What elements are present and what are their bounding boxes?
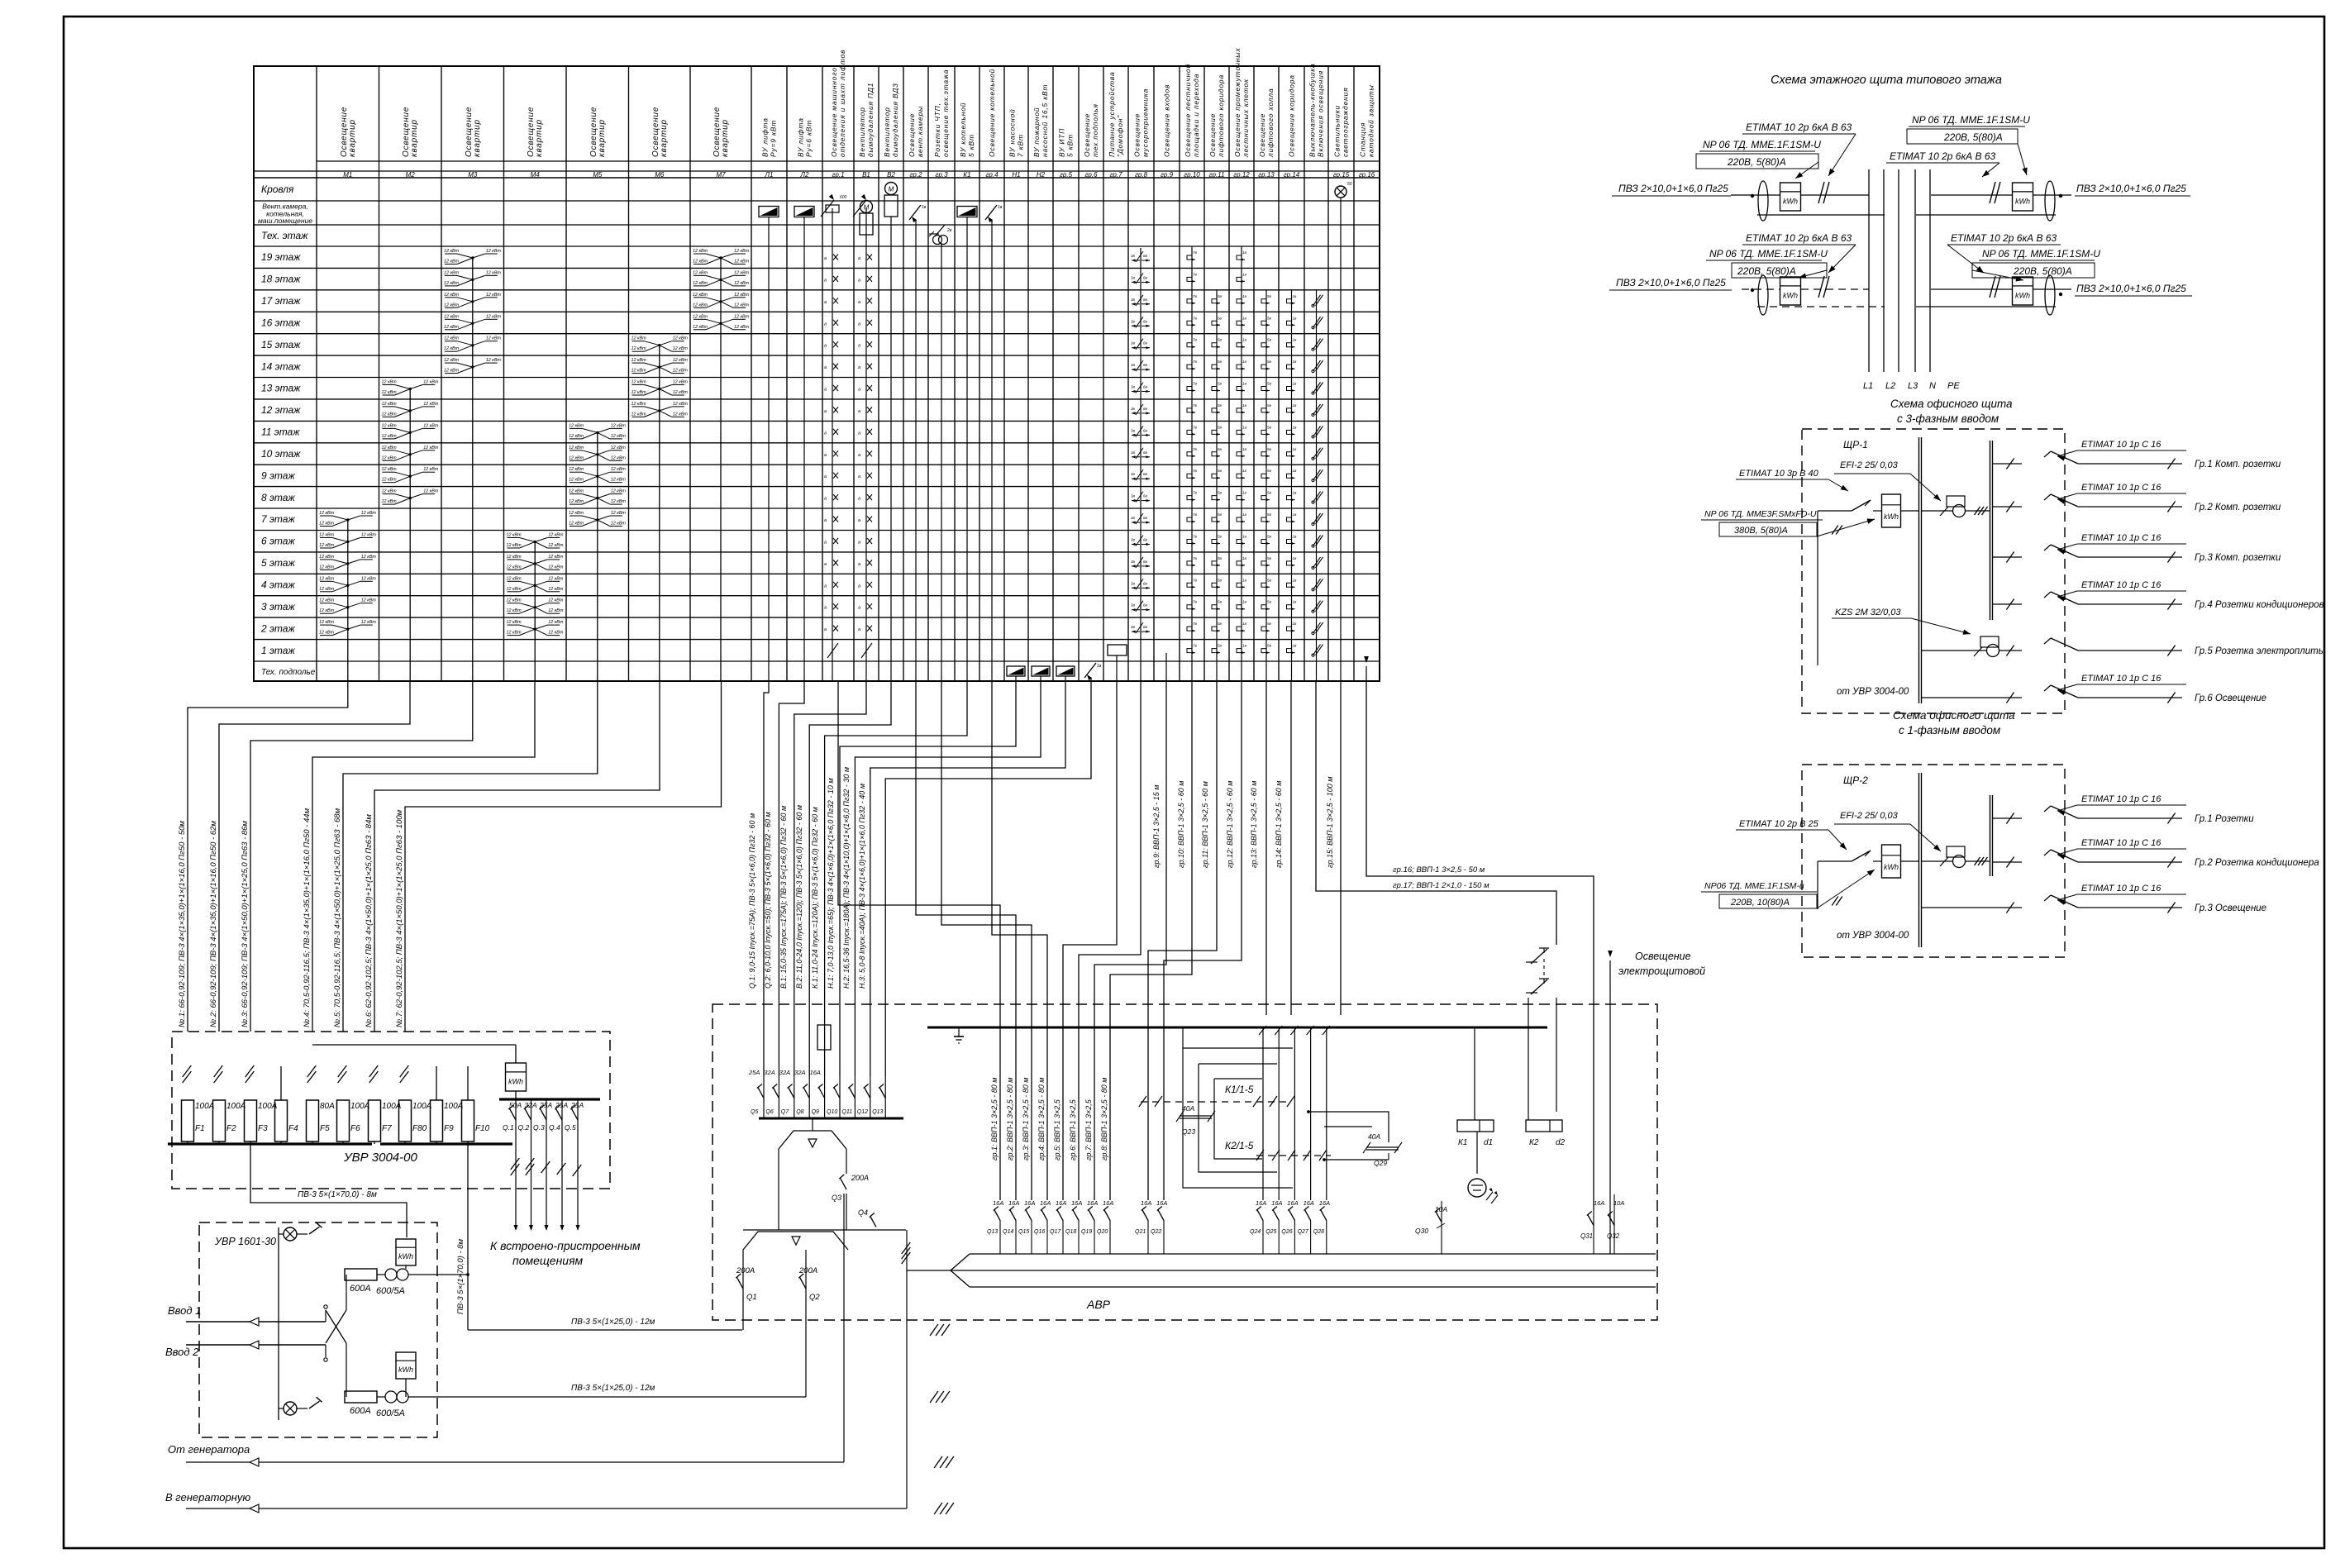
svg-text:1в: 1в (1242, 447, 1247, 451)
svg-text:2 этаж: 2 этаж (260, 622, 295, 634)
svg-text:дымоудаления ВД3: дымоудаления ВД3 (891, 83, 899, 157)
svg-text:12 кВт: 12 кВт (632, 346, 647, 351)
svg-text:12 кВт: 12 кВт (673, 412, 689, 417)
svg-text:50: 50 (1347, 182, 1352, 187)
svg-text:12 кВт: 12 кВт (734, 270, 750, 275)
svg-text:1в: 1в (1293, 338, 1298, 342)
svg-text:маш.помещение: маш.помещение (258, 217, 312, 225)
svg-text:3в: 3в (1131, 275, 1136, 279)
svg-text:гр.17; ВВП-1 2×1,0 - 150 м: гр.17; ВВП-1 2×1,0 - 150 м (1393, 881, 1489, 890)
svg-text:гр.6: гр.6 (1084, 171, 1098, 179)
svg-text:12 кВт: 12 кВт (423, 380, 439, 385)
svg-text:ПВ-3 5×(1×25,0) - 12м: ПВ-3 5×(1×25,0) - 12м (571, 1384, 655, 1393)
svg-text:7в: 7в (1193, 491, 1198, 495)
svg-text:гр.1: ВВП-1 3×2,5 - 80 м: гр.1: ВВП-1 3×2,5 - 80 м (990, 1078, 999, 1161)
svg-text:12 кВт: 12 кВт (444, 249, 460, 254)
svg-text:Q9: Q9 (812, 1109, 819, 1115)
svg-text:5в: 5в (1267, 644, 1272, 648)
svg-text:16А: 16А (1087, 1199, 1098, 1207)
svg-text:15 этаж: 15 этаж (261, 339, 301, 350)
svg-text:3в: 3в (1131, 516, 1136, 520)
svg-text:12 кВт: 12 кВт (693, 249, 708, 254)
svg-text:N: N (1929, 381, 1936, 391)
svg-text:5в: 5в (1218, 622, 1223, 626)
svg-text:12 кВт: 12 кВт (444, 293, 460, 298)
svg-text:мусороприемника: мусороприемника (1142, 88, 1150, 157)
svg-text:В1: В1 (862, 171, 870, 179)
svg-text:5в: 5в (1267, 316, 1272, 320)
svg-text:F7: F7 (382, 1124, 392, 1133)
svg-text:1в: 1в (1242, 644, 1247, 648)
svg-text:12 кВт: 12 кВт (548, 598, 564, 603)
svg-text:220В, 5(80)А: 220В, 5(80)А (1727, 156, 1786, 168)
svg-text:Н1: Н1 (1012, 171, 1020, 179)
svg-text:катодной защиты: катодной защиты (1367, 84, 1375, 157)
svg-text:12 кВт: 12 кВт (673, 346, 689, 351)
svg-text:5в: 5в (1218, 491, 1223, 495)
svg-text:Гр.3 Освещение: Гр.3 Освещение (2195, 903, 2266, 913)
svg-text:Освещение лестничной: Освещение лестничной (1184, 64, 1192, 157)
svg-text:а: а (858, 453, 860, 458)
svg-text:16А: 16А (993, 1199, 1003, 1207)
svg-text:ПВЗ 2×10,0+1×6,0 Пг25: ПВЗ 2×10,0+1×6,0 Пг25 (1618, 183, 1728, 194)
svg-text:12 кВт: 12 кВт (486, 270, 502, 275)
svg-text:12 кВт: 12 кВт (673, 336, 689, 341)
svg-text:d2: d2 (1556, 1138, 1566, 1147)
svg-text:12 кВт: 12 кВт (361, 511, 377, 516)
svg-text:Q.1: Q.1 (503, 1123, 514, 1132)
svg-text:Розетки ЧТП,: Розетки ЧТП, (933, 102, 941, 157)
svg-text:3 этаж: 3 этаж (261, 601, 295, 612)
svg-text:1в: 1в (1293, 316, 1298, 320)
svg-text:12 кВт: 12 кВт (673, 402, 689, 407)
svg-text:12 кВт: 12 кВт (319, 576, 335, 581)
svg-text:ETIMAT 10 2р 6кА В 63: ETIMAT 10 2р 6кА В 63 (1746, 232, 1852, 244)
svg-text:12 кВт: 12 кВт (611, 434, 627, 439)
svg-text:NP06 ТД. MME.1F.1SM-u: NP06 ТД. MME.1F.1SM-u (1704, 881, 1804, 891)
svg-text:40А: 40А (1368, 1132, 1380, 1141)
svg-text:ВУ пожарной: ВУ пожарной (1032, 107, 1041, 157)
svg-text:квартир: квартир (598, 119, 607, 157)
svg-text:квартир: квартир (660, 119, 669, 157)
svg-text:12 кВт: 12 кВт (507, 620, 522, 625)
svg-text:NP 06 ТД. MME.1F.1SM-U: NP 06 ТД. MME.1F.1SM-U (1982, 248, 2100, 260)
svg-text:5в: 5в (1218, 556, 1223, 560)
svg-text:12 кВт: 12 кВт (632, 380, 647, 385)
svg-text:а: а (858, 278, 860, 283)
svg-text:12 кВт: 12 кВт (319, 543, 335, 548)
svg-text:Освещение промежуточных: Освещение промежуточных (1233, 48, 1242, 157)
svg-text:kWh: kWh (1783, 198, 1798, 206)
svg-text:ETIMAT 10 1р С 16: ETIMAT 10 1р С 16 (2081, 440, 2161, 450)
svg-text:Гр.2 Розетка кондиционера: Гр.2 Розетка кондиционера (2195, 858, 2319, 868)
svg-text:12 кВт: 12 кВт (569, 455, 584, 460)
svg-text:Светильники: Светильники (1333, 105, 1342, 157)
svg-text:7в: 7в (1193, 512, 1198, 517)
svg-text:Q.5: Q.5 (565, 1123, 576, 1132)
svg-text:ETIMAT 10 1р С 16: ETIMAT 10 1р С 16 (2081, 483, 2161, 493)
svg-text:12 кВт: 12 кВт (319, 587, 335, 592)
svg-text:АВР: АВР (1086, 1298, 1111, 1311)
svg-text:12 кВт: 12 кВт (548, 576, 564, 581)
svg-text:12 кВт: 12 кВт (611, 423, 627, 428)
svg-text:5в: 5в (1218, 578, 1223, 582)
svg-text:ЩР-1: ЩР-1 (1843, 439, 1868, 450)
svg-text:kWh: kWh (1884, 512, 1899, 521)
svg-text:3в: 3в (1131, 298, 1136, 302)
svg-text:6в: 6в (1143, 341, 1148, 346)
svg-text:"Домофон": "Домофон" (1116, 115, 1124, 157)
svg-text:4 этаж: 4 этаж (261, 579, 295, 591)
svg-text:Гр.1 Комп. розетки: Гр.1 Комп. розетки (2195, 460, 2281, 469)
svg-text:3в: 3в (1131, 254, 1136, 258)
svg-text:12 кВт: 12 кВт (693, 314, 708, 319)
svg-text:12 кВт: 12 кВт (507, 576, 522, 581)
svg-text:1в: 1в (1242, 425, 1247, 429)
svg-text:с 3-фазным вводом: с 3-фазным вводом (1897, 412, 1999, 425)
svg-text:квартир: квартир (348, 119, 357, 157)
svg-text:12 кВт: 12 кВт (734, 303, 750, 307)
svg-text:F80: F80 (412, 1124, 427, 1133)
svg-text:гр.3: гр.3 (935, 171, 948, 179)
svg-text:5в: 5в (1218, 600, 1223, 604)
svg-text:В.1: 15,0-35 Iпуск.=175А); ПВ-: В.1: 15,0-35 Iпуск.=175А); ПВ-3 5×(1×6,0… (779, 806, 788, 989)
svg-text:kWh: kWh (508, 1078, 523, 1086)
svg-text:1в: 1в (1293, 535, 1298, 539)
svg-text:8 этаж: 8 этаж (261, 492, 295, 503)
svg-text:гр.10: ВВП-1 3×2,5 - 60 м: гр.10: ВВП-1 3×2,5 - 60 м (1177, 781, 1185, 868)
svg-text:17 этаж: 17 этаж (261, 295, 301, 307)
svg-text:12 кВт: 12 кВт (611, 467, 627, 472)
svg-text:Освещение входов: Освещение входов (1163, 84, 1171, 157)
svg-text:100А: 100А (350, 1102, 370, 1111)
svg-text:6в: 6в (1143, 450, 1148, 455)
svg-text:L3: L3 (1908, 381, 1918, 391)
svg-text:Ру=6 кВт: Ру=6 кВт (805, 120, 813, 157)
svg-text:а: а (858, 497, 860, 502)
svg-text:12 кВт: 12 кВт (632, 402, 647, 407)
svg-text:12 кВт: 12 кВт (382, 380, 398, 385)
svg-text:Q4: Q4 (858, 1208, 868, 1217)
svg-text:12 кВт: 12 кВт (507, 598, 522, 603)
svg-text:светоограждения: светоограждения (1342, 88, 1350, 157)
svg-text:F3: F3 (258, 1124, 268, 1133)
svg-text:Гр.4 Розетки кондиционеров: Гр.4 Розетки кондиционеров (2195, 600, 2324, 610)
svg-text:3в: 3в (1131, 450, 1136, 455)
svg-text:а: а (824, 365, 827, 370)
svg-text:12 кВт: 12 кВт (548, 555, 564, 560)
svg-text:гр.1: гр.1 (832, 171, 844, 179)
svg-text:3в: 3в (1131, 472, 1136, 476)
svg-text:100А: 100А (195, 1102, 215, 1111)
svg-text:380В, 5(80)А: 380В, 5(80)А (1734, 526, 1788, 536)
svg-text:6в: 6в (1143, 560, 1148, 564)
svg-text:6в: 6в (1143, 428, 1148, 432)
svg-text:Гр.6 Освещение: Гр.6 Освещение (2195, 693, 2266, 703)
svg-text:F6: F6 (350, 1124, 360, 1133)
svg-text:12 кВт: 12 кВт (569, 434, 584, 439)
svg-text:6в: 6в (1143, 625, 1148, 629)
svg-text:12 кВт: 12 кВт (361, 576, 377, 581)
svg-text:12 кВт: 12 кВт (548, 620, 564, 625)
svg-text:5в: 5в (1218, 294, 1223, 298)
svg-text:12 кВт: 12 кВт (486, 249, 502, 254)
svg-text:12 кВт: 12 кВт (734, 260, 750, 265)
svg-text:7в: 7в (1193, 338, 1198, 342)
svg-text:12 кВт: 12 кВт (569, 467, 584, 472)
svg-text:а: а (824, 322, 827, 326)
svg-text:а: а (858, 606, 860, 611)
svg-text:5 этаж: 5 этаж (261, 557, 295, 569)
svg-text:6 этаж: 6 этаж (261, 536, 295, 547)
svg-text:12 кВт: 12 кВт (548, 565, 564, 570)
svg-text:12 кВт: 12 кВт (382, 489, 398, 494)
svg-text:Гр.5 Розетка электроплиты: Гр.5 Розетка электроплиты (2195, 646, 2326, 656)
svg-text:16А: 16А (1594, 1199, 1604, 1207)
svg-text:Q.4: Q.4 (549, 1123, 560, 1132)
svg-text:12 кВт: 12 кВт (548, 631, 564, 636)
svg-text:гр.8: ВВП-1 3×2,5 - 80 м: гр.8: ВВП-1 3×2,5 - 80 м (1100, 1078, 1108, 1161)
svg-text:12 кВт: 12 кВт (361, 555, 377, 560)
svg-text:Q20: Q20 (1097, 1229, 1108, 1235)
svg-text:гр.9: ВВП-1 3×2,5 - 15 м: гр.9: ВВП-1 3×2,5 - 15 м (1152, 785, 1161, 868)
svg-text:ETIMAT 10 2р 6кА В 63: ETIMAT 10 2р 6кА В 63 (1951, 232, 2057, 244)
svg-text:В.2: 11,0-24,0 Iпуск.=120); ПВ: В.2: 11,0-24,0 Iпуск.=120); ПВ-3 5×(1×6,… (795, 805, 803, 989)
svg-text:Л2: Л2 (800, 171, 809, 179)
svg-text:7в: 7в (1193, 425, 1198, 429)
svg-text:12 кВт: 12 кВт (693, 270, 708, 275)
svg-text:Q22: Q22 (1151, 1229, 1161, 1235)
svg-text:ВУ лифта: ВУ лифта (797, 117, 805, 157)
svg-text:гр.5: гр.5 (1060, 171, 1073, 179)
svg-text:а: а (858, 431, 860, 436)
svg-text:М5: М5 (593, 171, 603, 179)
svg-text:220В, 5(80)А: 220В, 5(80)А (1943, 131, 2003, 143)
svg-text:12 кВт: 12 кВт (569, 489, 584, 494)
svg-text:12 кВт: 12 кВт (361, 533, 377, 538)
svg-text:ЩР-2: ЩР-2 (1843, 774, 1868, 786)
svg-text:Q24: Q24 (1250, 1229, 1261, 1235)
svg-text:Q25: Q25 (1265, 1229, 1276, 1235)
svg-text:12 кВт: 12 кВт (569, 522, 584, 527)
svg-text:1в: 1в (1293, 556, 1298, 560)
svg-text:Освещение машинного: Освещение машинного (830, 67, 838, 157)
svg-text:а: а (824, 453, 827, 458)
svg-text:kWh: kWh (2015, 198, 2030, 206)
svg-text:7в: 7в (1193, 578, 1198, 582)
svg-text:9 этаж: 9 этаж (261, 469, 295, 481)
svg-text:а: а (858, 388, 860, 393)
svg-text:6в: 6в (1143, 494, 1148, 498)
svg-text:7в: 7в (1193, 294, 1198, 298)
svg-text:1в: 1в (1242, 316, 1247, 320)
svg-text:1в: 1в (1242, 512, 1247, 517)
svg-text:Q.2: Q.2 (518, 1123, 530, 1132)
svg-text:гр.2: ВВП-1 3×2,5 - 80 м: гр.2: ВВП-1 3×2,5 - 80 м (1006, 1078, 1014, 1161)
svg-text:Схема офисного щита: Схема офисного щита (1890, 398, 2013, 410)
svg-text:6в: 6в (1143, 298, 1148, 302)
svg-text:12 кВт: 12 кВт (486, 314, 502, 319)
svg-text:Q10: Q10 (827, 1109, 837, 1115)
svg-text:5в: 5в (1267, 403, 1272, 407)
svg-text:гр.4: гр.4 (985, 171, 999, 179)
svg-text:12 кВт: 12 кВт (673, 390, 689, 395)
svg-text:а: а (858, 541, 860, 546)
svg-text:5в: 5в (1218, 535, 1223, 539)
svg-text:Q5: Q5 (751, 1109, 758, 1115)
svg-text:гр.15: гр.15 (1333, 171, 1350, 179)
svg-text:с 1-фазным вводом: с 1-фазным вводом (1899, 724, 2000, 736)
svg-text:гр.4: ВВП-1 3×2,5 - 80 м: гр.4: ВВП-1 3×2,5 - 80 м (1037, 1078, 1046, 1161)
svg-text:гр.14: гр.14 (1284, 171, 1300, 179)
svg-text:12 кВт: 12 кВт (569, 423, 584, 428)
svg-text:а: а (824, 627, 827, 632)
svg-text:ПВЗ 2×10,0+1×6,0 Пг25: ПВЗ 2×10,0+1×6,0 Пг25 (2076, 183, 2186, 194)
svg-text:5в: 5в (1267, 338, 1272, 342)
svg-text:6в: 6в (1143, 407, 1148, 411)
svg-text:ВУ котельной: ВУ котельной (959, 102, 967, 157)
svg-text:1в: 1в (1242, 622, 1247, 626)
svg-text:а: а (824, 497, 827, 502)
svg-text:12 кВт: 12 кВт (734, 293, 750, 298)
svg-text:12 кВт: 12 кВт (693, 293, 708, 298)
svg-text:13 этаж: 13 этаж (261, 383, 301, 394)
svg-text:квартир: квартир (721, 119, 730, 157)
svg-text:Освещение: Освещение (1133, 113, 1142, 157)
svg-text:12 кВт: 12 кВт (611, 478, 627, 483)
svg-text:1в: 1в (1293, 512, 1298, 517)
svg-text:ETIMAT 10 1р С 16: ETIMAT 10 1р С 16 (2081, 580, 2161, 590)
svg-text:тех.подполья: тех.подполья (1091, 103, 1099, 157)
svg-text:Ру=9 кВт: Ру=9 кВт (770, 120, 778, 157)
svg-text:16А: 16А (1141, 1199, 1151, 1207)
svg-text:F2: F2 (226, 1124, 236, 1133)
svg-text:12 кВт: 12 кВт (673, 369, 689, 374)
svg-text:ETIMAT 10 1р С 16: ETIMAT 10 1р С 16 (2081, 794, 2161, 804)
svg-text:а: а (824, 300, 827, 305)
svg-text:12 кВт: 12 кВт (423, 489, 439, 494)
svg-text:гр.5: ВВП-1 3×2,5: гр.5: ВВП-1 3×2,5 (1053, 1099, 1061, 1161)
svg-text:гр.8: гр.8 (1135, 171, 1148, 179)
svg-text:электрощитовой: электрощитовой (1618, 965, 1705, 977)
svg-text:12 кВт: 12 кВт (382, 467, 398, 472)
svg-text:12 кВт: 12 кВт (734, 281, 750, 286)
svg-text:гр.15: ВВП-1 3×2,5 - 100 м: гр.15: ВВП-1 3×2,5 - 100 м (1326, 777, 1334, 868)
svg-text:Q1: Q1 (746, 1293, 757, 1302)
svg-text:16А: 16А (810, 1069, 821, 1076)
svg-text:16А: 16А (1319, 1199, 1330, 1207)
svg-text:25А: 25А (748, 1069, 760, 1076)
svg-text:ETIMAT 10 1р С 16: ETIMAT 10 1р С 16 (2081, 533, 2161, 543)
svg-text:Гр.3 Комп. розетки: Гр.3 Комп. розетки (2195, 553, 2281, 563)
svg-text:а: а (824, 606, 827, 611)
svg-text:12 кВт: 12 кВт (734, 325, 750, 330)
svg-text:гр.14: ВВП-1 3×2,5 - 60 м: гр.14: ВВП-1 3×2,5 - 60 м (1275, 781, 1283, 868)
svg-text:Q11: Q11 (841, 1109, 852, 1115)
svg-text:3в: 3в (1131, 407, 1136, 411)
svg-text:5в: 5в (1267, 491, 1272, 495)
svg-text:6в: 6в (1143, 275, 1148, 279)
svg-text:гр.11: ВВП-1 3×2,5 - 60 м: гр.11: ВВП-1 3×2,5 - 60 м (1201, 781, 1209, 868)
svg-text:лифтового коридора: лифтового коридора (1217, 74, 1225, 158)
svg-text:3в: 3в (1131, 341, 1136, 346)
svg-text:600/5А: 600/5А (376, 1408, 405, 1418)
svg-text:5в: 5в (1267, 360, 1272, 364)
svg-text:гр.12: ВВП-1 3×2,5 - 60 м: гр.12: ВВП-1 3×2,5 - 60 м (1226, 781, 1234, 868)
svg-text:а: а (858, 562, 860, 567)
svg-text:Вентилятор: Вентилятор (883, 107, 891, 157)
svg-text:ВУ лифта: ВУ лифта (761, 117, 770, 157)
svg-text:Питание устройства: Питание устройства (1108, 72, 1116, 157)
svg-text:№.3: 66-0,92-109; ПВ-3 4×(1×50: №.3: 66-0,92-109; ПВ-3 4×(1×50,0)+1×(1×2… (241, 821, 250, 1027)
svg-text:7в: 7в (1193, 382, 1198, 386)
svg-text:а: а (858, 474, 860, 479)
svg-text:Станция: Станция (1359, 122, 1367, 157)
svg-text:12 кВт: 12 кВт (734, 314, 750, 319)
svg-text:М: М (889, 186, 894, 193)
svg-text:гр.6: ВВП-1 3×2,5: гр.6: ВВП-1 3×2,5 (1069, 1099, 1077, 1161)
svg-text:5в: 5в (1218, 469, 1223, 473)
svg-text:Освещение: Освещение (1083, 113, 1091, 157)
svg-text:1в: 1в (1242, 272, 1247, 276)
svg-text:5в: 5в (1218, 382, 1223, 386)
svg-text:200А: 200А (736, 1266, 755, 1275)
svg-text:5в: 5в (1218, 425, 1223, 429)
svg-text:32А: 32А (525, 1101, 537, 1109)
svg-text:5в: 5в (1267, 512, 1272, 517)
svg-text:1в: 1в (1293, 294, 1298, 298)
svg-text:К.1: 11,0-24 Iпуск.=120А); ПВ-: К.1: 11,0-24 Iпуск.=120А); ПВ-3 5×(1×6,0… (811, 807, 819, 989)
svg-text:Q30: Q30 (1415, 1227, 1428, 1235)
svg-text:7в: 7в (1193, 535, 1198, 539)
svg-text:12 кВт: 12 кВт (548, 543, 564, 548)
svg-text:а: а (858, 256, 860, 261)
svg-text:От генератора: От генератора (168, 1443, 250, 1456)
svg-text:а: а (858, 322, 860, 326)
svg-text:12 кВт: 12 кВт (548, 608, 564, 613)
svg-text:12 кВт: 12 кВт (548, 587, 564, 592)
svg-text:12 кВт: 12 кВт (444, 336, 460, 341)
svg-text:12 кВт: 12 кВт (611, 511, 627, 516)
svg-text:12 кВт: 12 кВт (423, 402, 439, 407)
svg-text:12 кВт: 12 кВт (444, 358, 460, 363)
svg-text:12 кВт: 12 кВт (444, 346, 460, 351)
svg-text:5в: 5в (1218, 403, 1223, 407)
svg-text:12 кВт: 12 кВт (632, 336, 647, 341)
svg-text:12 кВт: 12 кВт (319, 511, 335, 516)
svg-text:kWh: kWh (398, 1252, 413, 1261)
svg-text:1в: 1в (1293, 600, 1298, 604)
svg-text:Q32: Q32 (1607, 1232, 1620, 1240)
svg-text:32А: 32А (794, 1069, 805, 1076)
svg-text:3в: 3в (1131, 625, 1136, 629)
svg-text:5в: 5в (1267, 447, 1272, 451)
svg-text:ПВЗ 2×10,0+1×6,0 Пг25: ПВЗ 2×10,0+1×6,0 Пг25 (2076, 283, 2186, 294)
svg-text:12 кВт: 12 кВт (548, 533, 564, 538)
svg-text:а: а (824, 409, 827, 414)
svg-text:гр.12: гр.12 (1233, 171, 1250, 179)
svg-text:600/5А: 600/5А (376, 1286, 405, 1296)
svg-text:5в: 5в (1267, 622, 1272, 626)
svg-text:7в: 7в (1193, 316, 1198, 320)
svg-text:16А: 16А (1103, 1199, 1113, 1207)
svg-text:3в: 3в (1131, 538, 1136, 542)
svg-text:12 кВт: 12 кВт (507, 608, 522, 613)
svg-text:гр.13: ВВП-1 3×2,5 - 60 м: гр.13: ВВП-1 3×2,5 - 60 м (1250, 781, 1258, 868)
svg-text:L2: L2 (1885, 381, 1895, 391)
svg-text:Q6: Q6 (765, 1109, 773, 1115)
svg-text:Q.1: 9,0-15 Iпуск.=75А); ПВ-3: Q.1: 9,0-15 Iпуск.=75А); ПВ-3 5×(1×6,0) … (748, 813, 756, 989)
